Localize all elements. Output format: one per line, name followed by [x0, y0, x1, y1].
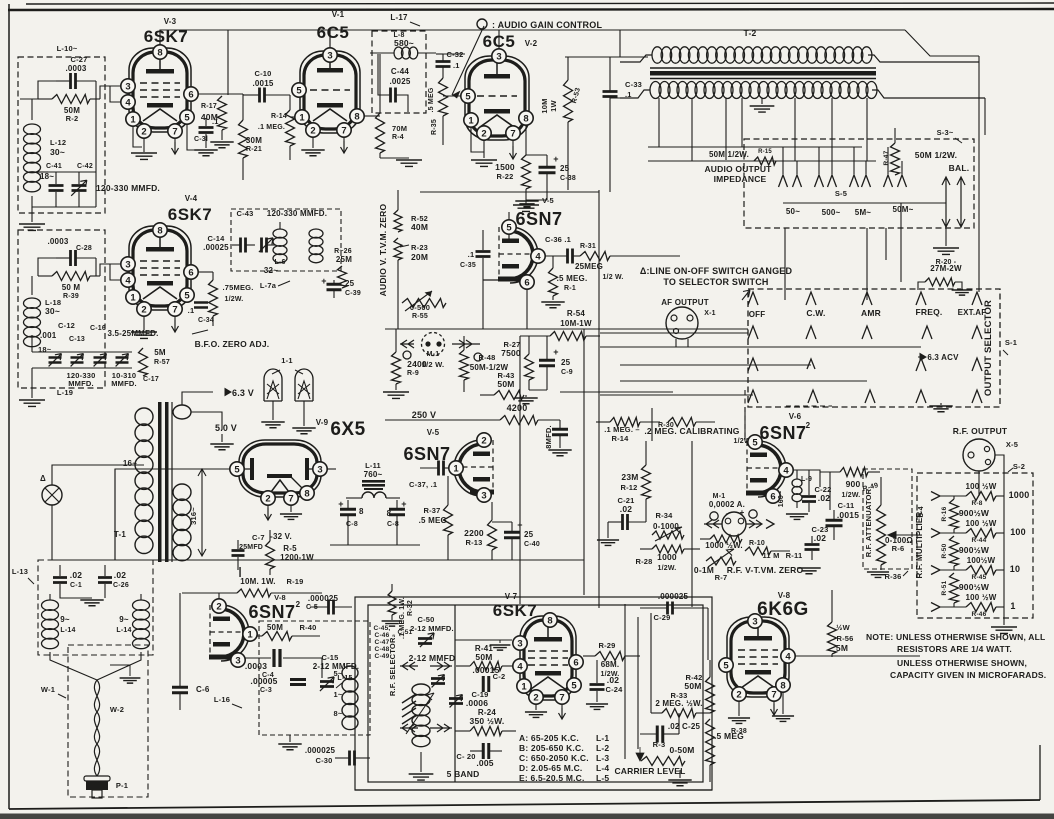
label L-17: [390, 13, 420, 26]
resistor R-27 7500 vertical: [525, 336, 534, 390]
label R-45: [972, 574, 987, 581]
svg-text:.005: .005: [476, 758, 493, 768]
note line 4: [890, 670, 1046, 680]
svg-text:2-12 MMFD: 2-12 MMFD: [409, 653, 456, 663]
label 4200: [507, 403, 528, 413]
svg-text:C-9: C-9: [561, 369, 573, 376]
resistor R-20 horizontal: [918, 278, 962, 290]
label R-14 (h): [611, 434, 629, 443]
coil L-14 a: [42, 594, 59, 649]
resistor R-54 horizontal: [520, 332, 600, 341]
capacitor C-30: [335, 751, 370, 766]
dashed box audio output impedance: [744, 139, 974, 228]
band list C: [519, 753, 589, 763]
label S-3: [937, 128, 962, 143]
svg-text:S-2: S-2: [1013, 462, 1025, 471]
label 7500: [501, 348, 521, 358]
label OFF: [749, 310, 766, 319]
label C-7: [252, 533, 265, 542]
svg-text:5: 5: [184, 290, 190, 301]
capacitor C-36: [545, 249, 580, 264]
label W-2: [110, 705, 124, 714]
svg-text:2 MEG. ½W.: 2 MEG. ½W.: [655, 699, 702, 708]
svg-text:7: 7: [559, 692, 564, 703]
svg-text:+: +: [338, 499, 343, 509]
svg-text:C-45,: C-45,: [374, 625, 391, 632]
svg-text:S-3~: S-3~: [937, 128, 954, 137]
svg-text:50M: 50M: [267, 623, 283, 632]
svg-text:70M: 70M: [392, 124, 407, 133]
label 160~: [778, 491, 785, 508]
label R-36: [884, 571, 908, 581]
label 5 BAND: [447, 769, 480, 779]
label 100 half W rung4: [966, 593, 997, 602]
label -32 V.: [270, 532, 292, 541]
svg-text:C-35: C-35: [460, 262, 476, 269]
svg-text:R-15: R-15: [758, 149, 772, 155]
pin 5 of V-4: [180, 288, 194, 302]
svg-text:760~: 760~: [364, 470, 383, 479]
label 2200: [464, 528, 484, 538]
label V-6: [789, 412, 802, 421]
resistor R-29 horizontal: [583, 652, 640, 661]
label 6SN7 (V-5b): [403, 444, 450, 464]
label .0015 (C-11): [837, 510, 859, 520]
wire lamp to T-1: [52, 465, 144, 560]
tube V-4 6SK7 body: [129, 226, 191, 310]
ground under V-4: [131, 316, 157, 338]
label R-50 (vertical): [941, 543, 948, 558]
svg-text:C-30: C-30: [315, 756, 332, 765]
svg-text:5M: 5M: [154, 348, 166, 357]
label C-24: [605, 685, 623, 694]
svg-text:C-5: C-5: [306, 604, 318, 611]
svg-text:R-29: R-29: [598, 641, 615, 650]
coil L-8: [370, 47, 436, 59]
svg-text:.75MEG.: .75MEG.: [223, 283, 254, 292]
label R-48: [478, 353, 495, 362]
label 5M (R-57): [154, 348, 166, 357]
label 5.0 V: [215, 423, 237, 433]
svg-text:6C5: 6C5: [317, 23, 350, 42]
svg-text:2: 2: [265, 493, 270, 504]
svg-text:R-6: R-6: [892, 544, 905, 553]
capacitor C-32: [436, 54, 451, 78]
choke L-11 core bars: [362, 480, 385, 490]
svg-text:100 ½W: 100 ½W: [966, 482, 997, 491]
label L-12: [50, 138, 66, 147]
pin 5 of V-5a: [502, 220, 516, 234]
label TO SELECTOR SWITCH: [663, 277, 768, 287]
transformer T-1 core: [158, 402, 172, 562]
label .25MFD: [237, 544, 263, 551]
pin 8 of V-1: [350, 109, 364, 123]
pin 5 of V-2: [461, 89, 475, 103]
svg-text:9~: 9~: [119, 615, 129, 624]
svg-text:7: 7: [288, 493, 293, 504]
tube label 6SK7 (V-3): [144, 27, 189, 46]
label R-16 (vertical): [941, 506, 948, 521]
label R-34: [655, 511, 673, 520]
impedance bus line lower: [648, 160, 876, 162]
tube label 6SK7 (V-7): [493, 601, 538, 620]
resistor R-30 horizontal: [668, 418, 715, 427]
capacitor C-8a 8MFD: [340, 500, 356, 545]
arrow under V-4 pin7: [172, 316, 179, 332]
pot R-34 0-1000: [652, 527, 684, 541]
pin 4 of V-5a: [531, 249, 545, 263]
svg-text:R-45: R-45: [972, 574, 987, 581]
terminal circle left: [403, 351, 411, 359]
label C-5: [306, 604, 318, 611]
label C-37 .1: [409, 480, 437, 489]
svg-text:0-1M: 0-1M: [694, 565, 714, 575]
svg-text:10M: 10M: [540, 98, 549, 113]
svg-text:6: 6: [524, 277, 529, 288]
svg-text:R-17: R-17: [201, 103, 217, 110]
svg-text:C-44: C-44: [391, 67, 409, 76]
label AUDIO GAIN CONTROL: [492, 20, 602, 30]
svg-text:C-3l: C-3l: [194, 136, 208, 143]
ground under lamp1: [261, 401, 284, 428]
svg-text:.02: .02: [70, 570, 82, 580]
svg-text:1/2 W.: 1/2 W.: [602, 274, 623, 281]
ground under R-4: [380, 153, 422, 166]
label C-13: [69, 336, 85, 343]
wire V-6 pin4 right: [793, 470, 820, 487]
label C-44: [391, 67, 409, 76]
ground under C-24: [586, 704, 608, 709]
svg-text:Δ: Δ: [40, 474, 46, 483]
label R.F. ATTENUATOR (vertical): [864, 488, 873, 557]
svg-text:L-16: L-16: [214, 695, 230, 704]
resistor R-48 vertical: [460, 336, 469, 392]
resistor 1000 halfW: [700, 535, 742, 543]
tube label 6C5 (V-1): [317, 23, 350, 42]
tube label 6SK7 (V-4): [168, 205, 213, 224]
label 18~ (L-18): [38, 345, 52, 354]
ground under R-6: [867, 572, 889, 577]
label C-22: [814, 485, 831, 494]
T-2 tap wires: [659, 98, 867, 161]
label half W (R-28): [658, 565, 677, 572]
pin 7 of 6X5: [284, 491, 298, 505]
pin 8 of V-7: [543, 613, 557, 627]
svg-text:1/2W.: 1/2W.: [842, 492, 861, 499]
capacitor C-41 fixed: [49, 172, 64, 207]
impedance bus line upper: [648, 146, 862, 148]
label 8MFD.: [544, 425, 553, 449]
label L-9: [801, 476, 812, 483]
svg-text:6.3 V: 6.3 V: [232, 388, 254, 398]
svg-text:4200: 4200: [507, 403, 528, 413]
svg-text:X-5: X-5: [1006, 440, 1018, 449]
label C-40: [524, 541, 540, 548]
ground under R-1: [541, 296, 564, 308]
svg-text:S-1: S-1: [1005, 338, 1017, 347]
resistor R-41 horizontal: [456, 662, 512, 671]
svg-text:C-49: C-49: [375, 653, 390, 660]
svg-text:4: 4: [125, 97, 131, 108]
svg-text:CAPACITY GIVEN IN MICROFARA: CAPACITY GIVEN IN MICROFARADS.: [890, 670, 1046, 680]
svg-text:R-57: R-57: [154, 359, 170, 366]
label C-30: [315, 756, 332, 765]
label C-16: [90, 325, 106, 332]
connector X-5 RF OUTPUT: [963, 439, 995, 471]
svg-text:AUDIO OUTPUT: AUDIO OUTPUT: [704, 164, 772, 174]
svg-text:R-14: R-14: [271, 113, 287, 120]
label .0006: [466, 698, 488, 708]
chevron right of M-1: [766, 520, 774, 529]
label R-33: [670, 691, 687, 700]
label .00025: [203, 243, 229, 252]
svg-text:R-14: R-14: [611, 434, 629, 443]
pin 2 of 6X5: [261, 491, 275, 505]
label R-22: [496, 172, 513, 181]
tube V-7 6SK7 body: [520, 616, 576, 700]
svg-text:5: 5: [723, 660, 729, 671]
ground under V-3: [131, 138, 157, 159]
coil L-16: [342, 666, 358, 730]
balance arrows: [942, 177, 965, 227]
svg-text:6X5: 6X5: [330, 419, 365, 440]
svg-text:L-3: L-3: [596, 753, 609, 763]
resistor R-15 50M horizontal: [754, 157, 776, 165]
capacitor C-10 .0015: [243, 88, 290, 103]
label V-9: [316, 418, 329, 427]
band list D: [519, 763, 582, 773]
svg-text:100 ½W: 100 ½W: [966, 593, 997, 602]
capacitor C-25: [640, 713, 679, 743]
svg-text:+: +: [740, 508, 745, 517]
label .02 (C-24): [607, 675, 619, 685]
label R-31: [580, 243, 596, 250]
label 8 (C-8b): [387, 509, 392, 518]
label R-40: [299, 623, 316, 632]
resistor R-33 horizontal: [651, 709, 710, 718]
svg-text:R-54: R-54: [567, 309, 585, 318]
label C-42: [77, 163, 93, 170]
ground near R-41: [490, 640, 512, 650]
capacitor C-38 25MFD: [526, 155, 556, 200]
svg-text:5: 5: [752, 437, 758, 448]
label R-6: [892, 544, 905, 553]
selector chevrons row2: [748, 326, 982, 339]
svg-text:6SK7: 6SK7: [168, 205, 213, 224]
capacitor C-4: [274, 649, 322, 678]
svg-text:R-11: R-11: [786, 551, 803, 560]
svg-text:.5 MEG.: .5 MEG.: [419, 516, 450, 525]
border frame bottom line: [9, 800, 1040, 809]
label C-38: [560, 175, 576, 182]
capacitor C-24: [590, 660, 605, 702]
variable capacitor C-15: [320, 677, 334, 691]
svg-text:8: 8: [354, 111, 359, 122]
label 0-100ohm: [885, 536, 913, 545]
svg-text:900½W: 900½W: [959, 545, 990, 555]
svg-text:2: 2: [481, 435, 486, 446]
wire 6X5 pin3 right: [327, 468, 336, 470]
ground under 6K6G pin2: [728, 701, 750, 723]
ground under L-16 box: [278, 735, 301, 750]
label 250 V: [412, 410, 437, 420]
label R-38: [731, 728, 747, 735]
pin 2 of V-4: [137, 302, 151, 316]
resistor R-16 900 vertical: [950, 496, 959, 533]
label L-18: [45, 298, 61, 307]
label L-16: [214, 695, 242, 708]
tube half V-5b 6SN7: [454, 440, 494, 496]
label R-35: [431, 119, 438, 135]
chevron rung1: [931, 492, 940, 501]
arrow into selector: [742, 290, 750, 300]
label L-14 a: [60, 627, 75, 634]
svg-text:MMFD.: MMFD.: [111, 379, 137, 388]
svg-text:V-9: V-9: [316, 418, 329, 427]
label C-39: [345, 290, 361, 297]
pin 4 of V-4: [121, 273, 135, 287]
svg-text:R-32: R-32: [407, 600, 414, 616]
svg-text:250 V: 250 V: [412, 410, 437, 420]
label MMFD. 2: [111, 379, 137, 388]
wire V-2 pin1 down: [471, 127, 484, 152]
svg-text:4: 4: [783, 465, 789, 476]
choke L-11 winding: [346, 492, 400, 498]
svg-text:8~: 8~: [334, 709, 343, 718]
pin 6 of V-5a: [520, 275, 534, 289]
chevron rung4: [931, 603, 940, 612]
selector feed wires: [600, 333, 921, 395]
label 25M (R-26): [336, 255, 352, 264]
svg-text:R-35: R-35: [431, 119, 438, 135]
svg-text:2: 2: [141, 126, 146, 137]
label .000025 (C-30): [305, 746, 336, 755]
capacitor C-39 25: [327, 280, 342, 298]
resistor R-5 1200 vertical: [266, 530, 275, 575]
resistor R-9 2400 vertical: [392, 329, 401, 384]
label 120-330 MMFD. (C-43): [267, 209, 327, 218]
wire top bus to R-53/C-33: [565, 56, 648, 58]
svg-text:10M-1W: 10M-1W: [560, 319, 592, 328]
label V-1: [332, 10, 345, 19]
resistor R-44 100 rung2: [940, 529, 1004, 538]
svg-text:1/2 W.: 1/2 W.: [422, 360, 444, 369]
svg-text:50 M: 50 M: [62, 283, 81, 292]
svg-text:580~: 580~: [394, 38, 414, 48]
capacitor C-33: [603, 57, 618, 192]
label L-19: [57, 388, 73, 397]
wire 32V long: [330, 559, 584, 561]
wire -32V node: [52, 559, 330, 561]
svg-text:C-33: C-33: [625, 80, 642, 89]
label 50M (R-2): [64, 106, 80, 115]
svg-text:-: -: [726, 509, 729, 518]
wire 250V rail: [385, 419, 480, 421]
resistor R-49 900 horizontal: [820, 468, 880, 477]
label .000025 (C-5): [308, 594, 339, 603]
svg-text:.0003: .0003: [245, 661, 267, 671]
svg-text:0-1000: 0-1000: [653, 522, 679, 531]
coil L-9: [792, 470, 802, 508]
ground below V-4 box: [19, 368, 45, 406]
label 18~ (L-12 tap): [40, 172, 54, 181]
svg-text:L-9: L-9: [801, 476, 812, 483]
label 23M: [621, 472, 638, 482]
resistor R-1 .5MEG vertical: [549, 256, 558, 296]
svg-text:V-5: V-5: [427, 428, 440, 437]
label 5M (R-56): [836, 643, 848, 653]
wire L-12 tap: [32, 171, 48, 173]
band list L-5: [596, 773, 609, 783]
svg-text:C-10: C-10: [254, 69, 271, 78]
arrow into R-6: [888, 532, 916, 539]
svg-text:.1: .1: [188, 306, 195, 315]
tube V-1 6C5 body: [300, 51, 360, 133]
resistor R-53 10M 1W vertical: [564, 57, 573, 190]
svg-text:6SK7: 6SK7: [493, 601, 538, 620]
terminal circle right (RF M-1): [749, 510, 757, 518]
border frame left line: [8, 4, 10, 809]
label R-57: [154, 359, 170, 366]
svg-text:C-6: C-6: [196, 685, 210, 694]
wire selector S-5 bottom bus: [783, 202, 946, 204]
label L-15: [336, 675, 353, 688]
pin 3 of 6K6G: [748, 614, 762, 628]
label R-54: [567, 309, 585, 318]
label AF OUTPUT: [661, 298, 709, 307]
svg-text:+: +: [401, 499, 406, 509]
label C-19: [471, 690, 488, 699]
ground above V-5a: [515, 201, 538, 207]
resistor R-31 horizontal: [580, 252, 680, 261]
labels C-45 to C-49: [374, 625, 391, 660]
svg-text:V-3: V-3: [164, 17, 177, 26]
selector S-5 chevrons: [779, 175, 907, 187]
svg-text:8: 8: [780, 680, 785, 691]
label .02 (C-1): [70, 570, 82, 580]
label 8 (C-8a): [359, 507, 364, 516]
svg-text:4: 4: [535, 251, 541, 262]
label 10M (R-53): [540, 98, 549, 113]
wire mid vertical x692: [691, 441, 693, 607]
label .1 (C-35): [468, 250, 475, 259]
capacitor C-34: [194, 303, 208, 308]
label R-52: [411, 214, 428, 223]
label 2-12 MMFD (switch): [409, 653, 456, 663]
label C-32: [446, 50, 463, 59]
ground under multiplier: [991, 627, 1017, 633]
svg-text:C-26: C-26: [113, 582, 129, 589]
label .02 (C-23): [814, 533, 826, 543]
label FREQ.: [916, 307, 943, 317]
label R-28: [635, 557, 652, 566]
svg-text:R-44: R-44: [972, 537, 987, 544]
svg-text:100 ½W: 100 ½W: [966, 519, 997, 528]
label 2 MEG half W: [655, 699, 702, 708]
label 1500 (R-22): [495, 162, 515, 172]
label S-5: [835, 189, 847, 198]
label AUDIO OUTPUT: [704, 164, 772, 174]
svg-text:W-1: W-1: [41, 685, 55, 694]
label R-26: [334, 248, 352, 255]
label R-15: [758, 149, 772, 155]
capacitor C-11: [826, 510, 843, 540]
label 30~ (L-12): [50, 147, 65, 157]
capacitor C-31 .1: [199, 118, 214, 148]
label .5 MEG. (R-37): [419, 516, 450, 525]
svg-text:X-1: X-1: [704, 310, 716, 317]
svg-text:10M. 1W.: 10M. 1W.: [240, 577, 275, 586]
